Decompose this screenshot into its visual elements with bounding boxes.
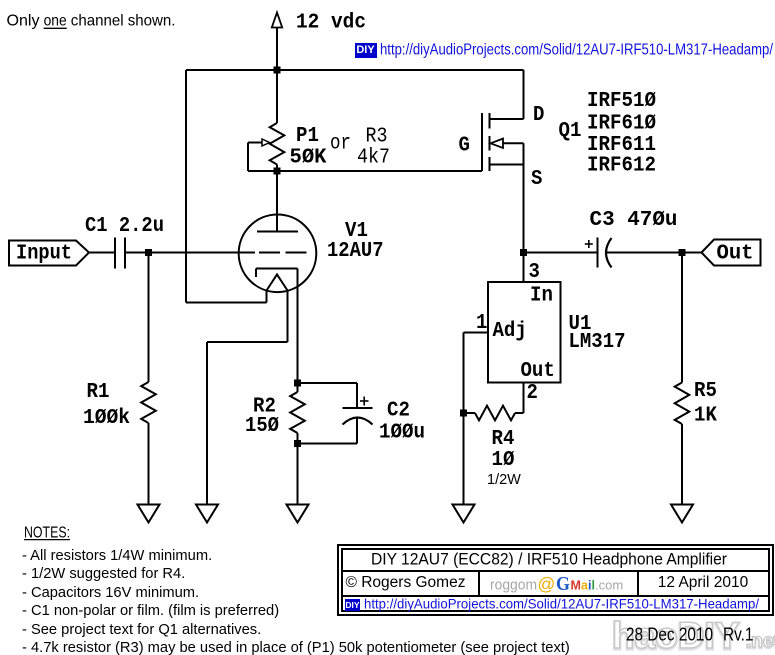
- svg-text:IRF51Ø: IRF51Ø: [587, 90, 656, 113]
- svg-text:D: D: [533, 104, 544, 127]
- svg-text:3: 3: [529, 261, 540, 284]
- svg-text:R3: R3: [366, 126, 388, 149]
- svg-text:NOTES:: NOTES:: [24, 524, 70, 541]
- svg-text:Adj: Adj: [493, 320, 527, 343]
- svg-text:roggom: roggom: [490, 577, 537, 593]
- svg-text:Input: Input: [16, 243, 72, 266]
- svg-text:1: 1: [476, 312, 487, 335]
- svg-text:or: or: [330, 133, 351, 156]
- svg-text:M: M: [571, 578, 581, 592]
- svg-text:http://diyAudioProjects.com/So: http://diyAudioProjects.com/Solid/12AU7-…: [380, 42, 773, 59]
- svg-text:DIY 12AU7 (ECC82) / IRF510 Hea: DIY 12AU7 (ECC82) / IRF510 Headphone Amp…: [371, 550, 727, 569]
- svg-text:R5: R5: [694, 380, 717, 403]
- svg-text:Q1: Q1: [559, 120, 582, 143]
- svg-text:C1 2.2u: C1 2.2u: [85, 215, 164, 238]
- svg-text:1ØØu: 1ØØu: [379, 422, 425, 445]
- svg-text:C3 47Øu: C3 47Øu: [590, 209, 678, 232]
- svg-text:In: In: [530, 285, 553, 308]
- svg-text:R4: R4: [492, 428, 515, 451]
- svg-text:4k7: 4k7: [357, 147, 390, 170]
- svg-text:1ØØk: 1ØØk: [83, 407, 130, 430]
- svg-text:12 vdc: 12 vdc: [296, 12, 366, 35]
- svg-text:Only: Only: [7, 13, 40, 30]
- svg-text:1K: 1K: [694, 405, 717, 428]
- svg-text:1/2W: 1/2W: [487, 472, 521, 488]
- svg-text:IRF61Ø: IRF61Ø: [587, 113, 656, 136]
- svg-text:@: @: [538, 574, 556, 594]
- svg-text:1Ø: 1Ø: [492, 449, 515, 472]
- svg-text:P1: P1: [296, 125, 319, 148]
- svg-text:IRF612: IRF612: [587, 155, 656, 178]
- svg-text:Out: Out: [717, 243, 754, 266]
- svg-text:one: one: [44, 13, 67, 30]
- svg-text:G: G: [459, 135, 470, 158]
- svg-text:Out: Out: [521, 360, 555, 383]
- svg-text:http://diyAudioProjects.com/So: http://diyAudioProjects.com/Solid/12AU7-…: [364, 597, 759, 612]
- svg-text:LM317: LM317: [569, 331, 626, 354]
- svg-text:.com: .com: [595, 577, 623, 592]
- svg-text:12AU7: 12AU7: [327, 240, 384, 263]
- svg-text:C2: C2: [387, 400, 410, 423]
- svg-text:Rv.1: Rv.1: [723, 625, 754, 645]
- svg-text:28 Dec 2010: 28 Dec 2010: [626, 625, 713, 645]
- svg-text:2: 2: [527, 382, 538, 405]
- svg-text:S: S: [531, 168, 542, 191]
- svg-text:15Ø: 15Ø: [245, 415, 279, 438]
- svg-text:R1: R1: [87, 381, 110, 404]
- svg-text:channel shown.: channel shown.: [71, 13, 176, 30]
- svg-text:5ØK: 5ØK: [290, 147, 327, 170]
- svg-text:G: G: [556, 572, 570, 594]
